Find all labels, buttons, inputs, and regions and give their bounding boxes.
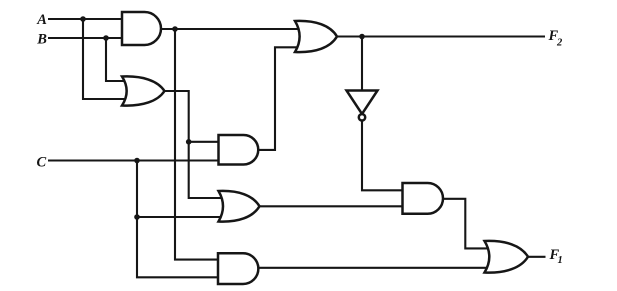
svg-text:2: 2 bbox=[556, 37, 563, 48]
svg-text:C: C bbox=[37, 155, 47, 171]
svg-text:A: A bbox=[36, 12, 47, 28]
svg-text:1: 1 bbox=[558, 255, 563, 266]
svg-text:B: B bbox=[36, 32, 47, 48]
